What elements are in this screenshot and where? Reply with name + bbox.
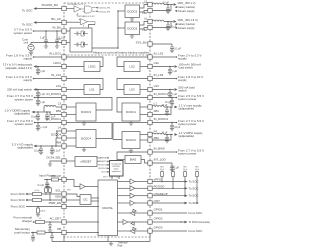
svg-text:system power: system power bbox=[14, 98, 33, 102]
wire LS3 out bbox=[140, 89, 148, 91]
svg-text:GPIO3: GPIO3 bbox=[154, 225, 163, 229]
arrow GPIO2 bbox=[185, 221, 188, 224]
wire L3 to coil bbox=[56, 106, 62, 108]
svg-text:LS2: LS2 bbox=[129, 65, 135, 69]
svg-text:L2: L2 bbox=[154, 129, 158, 133]
svg-text:FB3: FB3 bbox=[56, 109, 62, 113]
pin PGOOD bbox=[148, 186, 152, 190]
wire DDR node bbox=[43, 107, 45, 112]
ground DCDC1 bbox=[130, 121, 132, 123]
junction L5 out bbox=[167, 4, 169, 6]
wire L4 from block bbox=[66, 130, 76, 132]
svg-text:1 µF: 1 µF bbox=[172, 93, 177, 96]
wire L4 to coil bbox=[56, 130, 62, 132]
inductor L1 coil bbox=[152, 106, 164, 107]
svg-text:INT_LDO: INT_LDO bbox=[154, 157, 167, 161]
ground DCDC3 bbox=[83, 121, 85, 123]
buffer GPIO3 pair bbox=[130, 228, 135, 233]
junction LS3 cap bbox=[169, 89, 171, 91]
svg-text:From SOC: From SOC bbox=[11, 205, 26, 209]
wire right column to rail bbox=[149, 233, 151, 241]
pin PWR_EN bbox=[62, 204, 66, 208]
IC boundary (dashed) bbox=[64, 3, 150, 237]
wire CC to coin cell bbox=[31, 43, 62, 45]
block supervisor note bbox=[110, 161, 124, 177]
pin nWAKEUP bbox=[148, 194, 152, 198]
wire L3 from block bbox=[66, 106, 76, 108]
wire IN_DCDC2 bbox=[152, 122, 177, 124]
wire FB5 sense bbox=[152, 5, 171, 11]
wire DCDC6 to L6 pin bbox=[140, 22, 148, 26]
svg-text:(adjustable): (adjustable) bbox=[14, 112, 30, 116]
arrow DCDC5_PG bbox=[96, 7, 98, 9]
pin AC_DET bbox=[62, 220, 66, 224]
pin IN_BIAS bbox=[148, 150, 152, 154]
junction DDR cap2 bbox=[46, 111, 48, 113]
pin FB3 bbox=[62, 112, 66, 116]
pin nINT bbox=[148, 201, 152, 205]
pin INT_LDO bbox=[148, 161, 152, 165]
resistor R3 series SDA bbox=[33, 199, 42, 202]
buffer U3 bbox=[80, 184, 85, 189]
wire DIGITAL to GPIO3 bbox=[118, 230, 131, 232]
capacitor C11 10uF bbox=[37, 112, 39, 115]
svg-text:3.3 V to 3.6 V analog supply: 3.3 V to 3.6 V analog supply bbox=[3, 64, 33, 67]
wire nINT to SOC bbox=[152, 202, 184, 204]
junction L2 out bbox=[166, 134, 168, 136]
pin L4 bbox=[62, 129, 66, 133]
wire DC34_SEL to ground bbox=[50, 161, 62, 164]
resistor R5 series bbox=[36, 221, 45, 224]
wire L2 node bbox=[164, 134, 173, 136]
wire PWR_EN bbox=[26, 206, 62, 208]
pin PGOOD_BU bbox=[62, 6, 66, 10]
junction dot IN_DCDC4 start bbox=[34, 122, 36, 124]
diamond SDA bbox=[26, 199, 28, 201]
inductor L5 coil bbox=[152, 3, 164, 4]
svg-text:FB2: FB2 bbox=[154, 136, 160, 140]
block DIGITAL bbox=[98, 180, 118, 236]
svg-text:FB5: FB5 bbox=[142, 12, 147, 15]
block BIAS bbox=[125, 156, 141, 164]
pin GPIO1 bbox=[148, 211, 152, 215]
svg-text:1 µF: 1 µF bbox=[40, 70, 45, 73]
svg-text:0.1 µF: 0.1 µF bbox=[174, 48, 181, 51]
svg-text:nRESET: nRESET bbox=[81, 160, 92, 164]
svg-text:FB4: FB4 bbox=[56, 140, 62, 144]
junction SCL pullup bbox=[45, 193, 47, 195]
pin SYS_BU bbox=[148, 42, 152, 46]
pin L2 bbox=[148, 132, 152, 136]
wire L1 from block bbox=[140, 106, 148, 108]
svg-text:IN_DCDC1: IN_DCDC1 bbox=[154, 92, 169, 96]
svg-text:system power: system power bbox=[13, 31, 32, 35]
svg-text:system power: system power bbox=[178, 97, 197, 101]
svg-text:1 µF: 1 µF bbox=[172, 70, 177, 73]
capacitor C2 0.1uF bbox=[56, 31, 58, 40]
junction DCDC2 in cap bbox=[171, 122, 173, 124]
svg-text:DCDC6: DCDC6 bbox=[127, 26, 137, 30]
ground rail bbox=[52, 241, 150, 243]
svg-text:IN_LS2: IN_LS2 bbox=[154, 51, 164, 55]
arrow seq 2 bbox=[107, 160, 109, 162]
regulator DCDC1 block bbox=[122, 103, 140, 121]
svg-text:battery backup: battery backup bbox=[178, 22, 196, 26]
svg-text:SYS_BU: SYS_BU bbox=[136, 40, 147, 44]
wire SDA I2C entry bbox=[66, 199, 80, 201]
svg-text:push button: push button bbox=[14, 230, 30, 234]
wire L1 node bbox=[164, 106, 173, 108]
capacitor C19 10uF bbox=[166, 107, 168, 110]
wire GPIO1 buffer to pin bbox=[135, 212, 148, 214]
svg-text:(adjustable): (adjustable) bbox=[17, 146, 33, 150]
diamond SCL bbox=[26, 193, 28, 195]
junction dot IN_DCDC2 start bbox=[176, 122, 178, 124]
svg-text:IN_BIAS: IN_BIAS bbox=[154, 146, 165, 150]
backup power mux box bbox=[70, 28, 92, 52]
resistor R6 series bbox=[37, 231, 45, 234]
arrow nINT to SOC bbox=[185, 202, 188, 205]
junction dot IN_BIAS start bbox=[176, 151, 178, 153]
wire GPIO1 from SOC bbox=[152, 212, 187, 214]
svg-text:nINT: nINT bbox=[154, 199, 160, 203]
arrow LS2 out bbox=[175, 65, 178, 68]
svg-text:BU_AC: BU_AC bbox=[51, 17, 61, 21]
svg-text:SDA: SDA bbox=[55, 194, 61, 198]
svg-text:VDD_ (BU 1 V): VDD_ (BU 1 V) bbox=[178, 1, 196, 5]
svg-text:IN_BU: IN_BU bbox=[52, 25, 61, 29]
svg-text:DCDC1: DCDC1 bbox=[126, 110, 136, 114]
svg-text:0.1 µF: 0.1 µF bbox=[54, 151, 61, 153]
svg-text:1 µF: 1 µF bbox=[40, 93, 45, 96]
arrow battery backup 2 bbox=[175, 23, 177, 25]
svg-text:To SOC: To SOC bbox=[189, 201, 199, 205]
junction dot AC_DET start bbox=[33, 221, 35, 223]
svg-text:1 µF: 1 µF bbox=[40, 36, 45, 39]
svg-text:LS2: LS2 bbox=[154, 61, 160, 65]
pin IN_LS1 bbox=[62, 76, 66, 80]
wire L2 from block bbox=[140, 134, 148, 136]
wire AC_DET bbox=[33, 221, 62, 223]
svg-text:nRESETO: nRESETO bbox=[97, 161, 107, 163]
svg-text:system power: system power bbox=[14, 122, 33, 126]
wire PWR_EN to DIGITAL bbox=[66, 206, 99, 208]
wire 3.3V IO rail bbox=[34, 145, 62, 147]
wire GPIO2 buffer to pin bbox=[128, 221, 148, 223]
pin IN_DCDC3 bbox=[62, 95, 66, 99]
junction DCDC1 in cap bbox=[171, 97, 173, 99]
wire IN_LDO1 bbox=[33, 56, 62, 58]
wire FB2 bbox=[152, 135, 171, 141]
wire IN_BU into mux bbox=[66, 30, 70, 32]
inductor L2 coil bbox=[152, 133, 164, 134]
svg-text:From SOC: From SOC bbox=[11, 192, 26, 196]
capacitor C6 10uF bbox=[167, 22, 169, 26]
junction dot IN_DCDC1 start bbox=[176, 97, 178, 99]
svg-text:DCDC5_PG: DCDC5_PG bbox=[98, 8, 110, 10]
arrow to SOC (PGOOD_BU) bbox=[34, 7, 37, 10]
junction AC_DET bbox=[49, 221, 51, 223]
wire nPFO to SOC bbox=[152, 181, 184, 183]
ground coin cell bbox=[30, 51, 32, 53]
capacitor C16 1uF bbox=[169, 67, 171, 70]
svg-text:supply: supply bbox=[178, 78, 187, 82]
pin LS3 bbox=[148, 87, 152, 91]
svg-text:To SOC: To SOC bbox=[189, 180, 199, 184]
svg-text:supply: supply bbox=[178, 57, 187, 61]
wire rail to DCDC6 bbox=[118, 27, 125, 29]
buffer nPFO bbox=[130, 179, 135, 184]
svg-text:VSYS(BU) ≥ 2.2 V: VSYS(BU) ≥ 2.2 V bbox=[68, 3, 86, 6]
svg-text:VIO: VIO bbox=[46, 184, 50, 186]
wire LS3 to margin bbox=[152, 89, 174, 91]
capacitor C13 1uF bbox=[37, 123, 39, 126]
wire IN_LS1 loop to LS1 bbox=[66, 79, 103, 90]
backup supply rail bbox=[117, 11, 119, 48]
wire I2C to DIGITAL bbox=[91, 197, 99, 199]
ground DC34_SEL bbox=[48, 164, 52, 166]
junction backup rail bbox=[117, 47, 119, 49]
junction dot IN_LS2 start bbox=[176, 56, 178, 58]
svg-text:L1: L1 bbox=[154, 101, 158, 105]
wire PGOOD to SOC bbox=[152, 187, 184, 189]
thermal pad ground bbox=[110, 242, 112, 244]
svg-text:PWR_EN: PWR_EN bbox=[49, 201, 61, 205]
svg-text:+ 1 µF: + 1 µF bbox=[40, 126, 47, 129]
pin CC bbox=[62, 40, 66, 44]
buffer nINT bbox=[130, 200, 135, 205]
wire DCDC5 to L5 pin bbox=[140, 5, 148, 9]
inductor L4 coil bbox=[56, 131, 57, 138]
wire IN_LS2 bbox=[152, 56, 177, 58]
arrow LS3 out bbox=[175, 88, 178, 91]
wire coil to output rail bbox=[55, 138, 57, 146]
arrow nPFO to SOC bbox=[185, 180, 188, 183]
arrow DDR out bbox=[32, 111, 35, 114]
svg-text:To SOC: To SOC bbox=[22, 23, 33, 27]
svg-text:To SOC: To SOC bbox=[189, 194, 199, 198]
capacitor C25 bbox=[31, 236, 35, 237]
coin cell battery B1 bbox=[28, 44, 34, 50]
wire left column to rail bbox=[63, 235, 65, 242]
svg-text:DCDC5: DCDC5 bbox=[127, 9, 137, 13]
wire FB1 from block bbox=[140, 114, 148, 116]
junction LDO1 cap bbox=[37, 66, 39, 68]
wire IN_DCDC4 bbox=[34, 122, 62, 124]
resistor R4 pulldown bbox=[37, 208, 40, 213]
load switch LS2 block bbox=[124, 62, 140, 72]
arrow VDD_BU2 bbox=[174, 20, 177, 23]
capacitor C5 10uF bbox=[167, 5, 169, 9]
wire CC into mux bbox=[66, 42, 70, 44]
wire input power bbox=[44, 179, 62, 181]
pin FB4 bbox=[62, 144, 66, 148]
wire LS1 out bbox=[66, 89, 84, 91]
resistor R1 series bbox=[52, 178, 59, 181]
wire DIGITAL to PGOOD buffer bbox=[118, 187, 131, 189]
svg-text:IN_DCDC2: IN_DCDC2 bbox=[154, 117, 169, 121]
junction IN_BU cap2 bbox=[56, 30, 58, 32]
pin nWKUP bbox=[62, 177, 66, 181]
arrow seq 4 bbox=[107, 167, 109, 169]
svg-text:LDO1: LDO1 bbox=[101, 172, 107, 174]
wire SDA pullup bbox=[49, 193, 51, 201]
capacitor C10 1uF bbox=[37, 98, 39, 101]
svg-text:IN_DCDC3: IN_DCDC3 bbox=[47, 92, 62, 96]
wire FB2 from block bbox=[140, 139, 148, 141]
wire nWAKEUP buffer to pin bbox=[135, 195, 148, 197]
svg-text:From SOC: From SOC bbox=[11, 198, 26, 202]
wires comparator1 to gate bbox=[81, 9, 85, 12]
regulator DCDC3 block bbox=[76, 103, 96, 121]
wire nINT buffer to pin bbox=[135, 202, 148, 204]
wire DIGITAL to GPIO2 bbox=[118, 221, 124, 223]
wire LS2 out bbox=[140, 66, 148, 68]
junction FB2 bbox=[170, 134, 172, 136]
inductor L3 coil bbox=[44, 106, 56, 108]
svg-text:DCDC3: DCDC3 bbox=[81, 110, 91, 114]
junction dot IN_LS1 start bbox=[33, 78, 35, 80]
regulator LDO1 block bbox=[84, 62, 100, 72]
wire GPIO2 out bbox=[152, 221, 186, 223]
pullup resistors VIO bbox=[45, 188, 48, 193]
ground DCDC6 bbox=[131, 35, 133, 37]
junction LS2 cap bbox=[169, 66, 171, 68]
svg-text:GPIO1: GPIO1 bbox=[154, 207, 163, 211]
wire SYS_BU bbox=[152, 43, 172, 45]
junction PGOOD pullup bbox=[172, 188, 174, 190]
svg-text:load switch: load switch bbox=[179, 66, 194, 70]
svg-text:domain supply: domain supply bbox=[178, 9, 196, 13]
wire nPFO buffer to pin bbox=[135, 181, 148, 183]
wire DC34_SEL to nRESET box bbox=[66, 160, 75, 162]
svg-text:PGOOD_BU: PGOOD_BU bbox=[42, 3, 58, 7]
wire LS1 to margin bbox=[37, 89, 62, 91]
ground DCDC4 bbox=[83, 148, 85, 150]
pin L6 bbox=[148, 19, 152, 23]
svg-text:BIAS: BIAS bbox=[130, 158, 137, 162]
arrow domain supply 1 bbox=[175, 10, 177, 12]
wire IN_BU bbox=[33, 30, 62, 32]
regulator DCDC4 block bbox=[76, 130, 96, 148]
svg-text:LS3: LS3 bbox=[154, 84, 160, 88]
svg-text:10 µF: 10 µF bbox=[163, 2, 170, 4]
pin SDA bbox=[62, 198, 66, 202]
junction PB cap2 bbox=[51, 232, 53, 234]
svg-text:supply: supply bbox=[23, 78, 32, 82]
svg-text:1 µF: 1 µF bbox=[40, 101, 45, 104]
junction nWAKEUP pullup bbox=[184, 195, 186, 197]
junction dot IN_BU start bbox=[33, 30, 35, 32]
svg-text:LDO1: LDO1 bbox=[88, 65, 96, 69]
capacitor C20 10uF bbox=[171, 123, 173, 126]
wire IN_DCDC3 loop bbox=[66, 98, 112, 111]
capacitor C23 0.1uF bbox=[46, 180, 48, 184]
resistor R2 series SCL bbox=[33, 193, 42, 196]
svg-text:1 µF: 1 µF bbox=[174, 167, 179, 170]
pin IN_LDODCDC1 bbox=[148, 95, 152, 99]
svg-text:From SOC: From SOC bbox=[189, 211, 203, 215]
svg-text:AC_DET: AC_DET bbox=[50, 216, 62, 220]
svg-text:IN_LS3: IN_LS3 bbox=[154, 73, 164, 77]
svg-text:nPFO: nPFO bbox=[154, 178, 162, 182]
svg-text:DCDC4: DCDC4 bbox=[51, 132, 61, 136]
svg-text:system power: system power bbox=[178, 122, 197, 126]
wire FB4 from block bbox=[66, 145, 76, 147]
wire IN_BIAS bbox=[152, 151, 177, 153]
wire mux top tap to comparator2 bbox=[89, 25, 96, 29]
capacitor C14 10uF bbox=[40, 146, 42, 149]
wire comparator2 output bbox=[88, 22, 96, 25]
junction FB3 bbox=[49, 111, 51, 113]
svg-text:VIO • 1.8 V • 3.3 V: VIO • 1.8 V • 3.3 V bbox=[103, 177, 121, 179]
arrow IO out bbox=[34, 145, 37, 148]
svg-text:200 mA load switch: 200 mA load switch bbox=[7, 87, 32, 91]
svg-text:LS3: LS3 bbox=[129, 88, 135, 92]
pin L5 bbox=[148, 2, 152, 6]
arrow nWAKEUP to SOC bbox=[185, 194, 188, 197]
wire IN_DCDC2 loop bbox=[113, 123, 148, 140]
wire IN_DCDC1a bbox=[152, 97, 177, 99]
buffer GPIO2 pair bbox=[123, 219, 128, 224]
junction DDR cap1 bbox=[37, 111, 39, 113]
pin FB2 bbox=[148, 138, 152, 142]
capacitor C7 0.1uF bbox=[171, 44, 173, 47]
svg-text:cell: cell bbox=[24, 41, 29, 45]
pin IN_DCDC4 bbox=[62, 120, 66, 124]
junction PWR_EN pulldown bbox=[37, 206, 39, 208]
svg-text:To SOC: To SOC bbox=[189, 186, 199, 190]
svg-text:IN_DCDC4: IN_DCDC4 bbox=[47, 117, 62, 121]
wire SCL bbox=[27, 193, 62, 195]
wire LDO1 out bbox=[66, 66, 84, 68]
junction nINT pullup bbox=[196, 202, 198, 204]
junction nPFO pullup bbox=[161, 181, 163, 183]
inductor L6 coil bbox=[152, 20, 164, 21]
wire IN_LS3 bbox=[152, 78, 177, 80]
wire gate inputs from PG signals bbox=[92, 8, 96, 12]
pullup R10 bbox=[196, 172, 199, 177]
wire IN_LDO1 loop to LDO1 bbox=[66, 57, 103, 67]
junction L6 out bbox=[167, 21, 169, 23]
wire PB bbox=[31, 232, 62, 234]
pin IN_DCDC2 bbox=[148, 120, 152, 124]
arrow seq 3 bbox=[107, 164, 109, 166]
pin FB6 bbox=[148, 25, 152, 29]
svg-text:nWAKEUP: nWAKEUP bbox=[154, 192, 168, 196]
junction IN_BU cap1 bbox=[45, 30, 47, 32]
pin FB1 bbox=[148, 112, 152, 116]
svg-text:nWAKEUP: nWAKEUP bbox=[96, 157, 107, 160]
wire DCDC4 sense pin from block bbox=[66, 137, 76, 139]
svg-text:VDCDC3: VDCDC3 bbox=[98, 165, 108, 167]
svg-text:10 µF: 10 µF bbox=[162, 132, 169, 134]
wire LDO1 to margin bbox=[37, 66, 62, 68]
wire DCDC5 to FB5 pin bbox=[140, 11, 148, 13]
wire IN_LS1 bbox=[33, 78, 62, 80]
capacitor C1 1uF bbox=[45, 31, 47, 40]
wire buffer to DIGITAL bbox=[85, 186, 98, 188]
pin PB bbox=[62, 230, 66, 234]
svg-text:L3: L3 bbox=[58, 101, 62, 105]
regulator DCDC6 bbox=[125, 22, 140, 35]
pin LS1 bbox=[62, 87, 66, 91]
svg-text:To SOC/momentary: To SOC/momentary bbox=[189, 221, 211, 224]
buffer PGOOD bbox=[130, 186, 135, 191]
junction DCDC3 in cap bbox=[37, 97, 39, 99]
junction dot IN_DCDC3 start bbox=[34, 97, 36, 99]
wire rail to DCDC5 bbox=[118, 10, 125, 12]
